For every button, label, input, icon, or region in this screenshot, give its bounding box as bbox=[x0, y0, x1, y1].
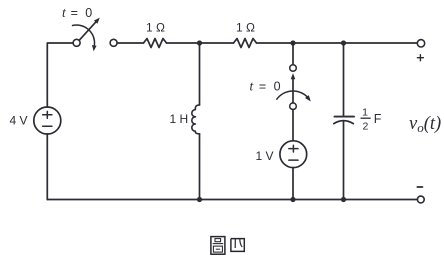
圖 middle bar bbox=[213, 243, 224, 245]
capacitor C1 curved bottom plate bbox=[334, 121, 354, 124]
wire node A to R2 bbox=[200, 42, 234, 44]
switch S2 blade (vertical with up arrow) bbox=[292, 79, 294, 103]
switch S1 pole circle bbox=[73, 39, 80, 46]
capacitor C1 top plate bbox=[335, 116, 355, 118]
wire top-left from 4V up and right to switch bbox=[47, 43, 73, 107]
svg-text:1 V: 1 V bbox=[256, 149, 274, 163]
svg-text:=: = bbox=[259, 80, 266, 94]
四 outer box bbox=[231, 239, 244, 252]
resistor R2 zigzag bbox=[234, 39, 257, 48]
inductor L1 coil bbox=[192, 105, 200, 134]
V2 minus sign bbox=[289, 159, 298, 161]
svg-text:1 Ω: 1 Ω bbox=[146, 21, 165, 35]
svg-text:2: 2 bbox=[362, 121, 368, 133]
svg-text:0: 0 bbox=[85, 6, 92, 20]
output - terminal circle bbox=[417, 196, 424, 203]
label 1/2 F fraction bbox=[362, 107, 368, 133]
四 inner strokes bbox=[234, 239, 236, 248]
圖 lower inner dash bbox=[216, 248, 220, 250]
svg-text:t: t bbox=[250, 79, 255, 94]
node A junction dot bbox=[197, 40, 202, 45]
svg-text:t: t bbox=[62, 5, 67, 20]
wire node B to node C bbox=[293, 42, 344, 44]
voltage source V2 1V circle bbox=[280, 141, 307, 168]
switch S1 blade bbox=[79, 22, 96, 41]
wire from S1 to R1 bbox=[117, 42, 143, 44]
svg-text:1 Ω: 1 Ω bbox=[236, 21, 255, 35]
圖 outer box bbox=[211, 237, 225, 255]
switch S2 bottom circle bbox=[290, 103, 297, 110]
switch S2 motion arc bbox=[277, 91, 310, 99]
圖 lower box bbox=[213, 246, 222, 252]
wire node A down to inductor bbox=[199, 43, 201, 105]
wire S2 to 1V source bbox=[292, 110, 294, 141]
V1 minus sign bbox=[43, 125, 52, 127]
switch S1 arc arrowhead bbox=[92, 45, 97, 51]
caption 圖四 (Figure 4) drawn as strokes bbox=[211, 237, 244, 255]
svg-text:F: F bbox=[374, 112, 382, 126]
wire R2 to node B bbox=[257, 42, 294, 44]
switch S2 top circle bbox=[290, 65, 297, 72]
node C junction dot bbox=[341, 40, 346, 45]
svg-text:0: 0 bbox=[274, 80, 281, 94]
wire node C down to capacitor bbox=[343, 43, 345, 116]
output + terminal circle bbox=[417, 40, 424, 47]
wire V2 down to bottom rail bbox=[292, 168, 294, 200]
svg-text:1 H: 1 H bbox=[170, 112, 189, 126]
wire capacitor to bottom rail bbox=[343, 121, 345, 199]
output + polarity mark bbox=[417, 55, 423, 61]
wire V1 down to bottom rail bbox=[46, 134, 48, 200]
output - polarity mark bbox=[417, 186, 422, 188]
圖 inner small mouth bbox=[215, 239, 221, 242]
svg-text:=: = bbox=[71, 6, 78, 20]
switch S1 throw circle bbox=[110, 39, 117, 46]
svg-text:1: 1 bbox=[362, 107, 368, 119]
voltage source V1 4V circle bbox=[34, 107, 61, 134]
switch S2 blade arrowhead bbox=[291, 73, 296, 79]
bottom node under capacitor bbox=[341, 197, 346, 202]
resistor R1 zigzag bbox=[144, 39, 167, 48]
wire inductor to bottom rail bbox=[199, 134, 201, 200]
wire node C to + terminal bbox=[344, 42, 418, 44]
svg-text:vo(t): vo(t) bbox=[409, 114, 441, 135]
switch S2 arc arrowhead bbox=[305, 95, 311, 101]
V2 plus sign bbox=[289, 145, 298, 152]
switch S1 motion arc bbox=[73, 25, 95, 45]
bottom node under V2 bbox=[290, 197, 295, 202]
node B junction dot bbox=[290, 40, 295, 45]
V1 plus sign bbox=[43, 111, 52, 118]
switch S1 blade arrowhead bbox=[94, 18, 100, 24]
bottom rail wire bbox=[47, 199, 417, 201]
svg-text:4 V: 4 V bbox=[10, 114, 28, 128]
bottom node under inductor bbox=[197, 197, 202, 202]
wire node B down to switch S2 bbox=[292, 43, 294, 65]
wire R1 to node A bbox=[167, 42, 200, 44]
